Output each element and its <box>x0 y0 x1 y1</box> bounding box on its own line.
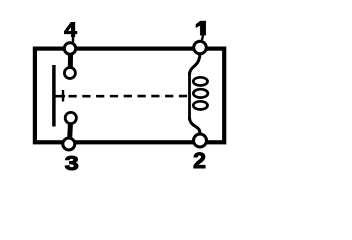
coil loop 3 <box>193 101 207 109</box>
coil loop 2 <box>193 89 208 97</box>
armature blade <box>52 65 56 127</box>
label pin 4 <box>64 19 77 42</box>
svg-text:3: 3 <box>65 152 79 175</box>
upper switch contact <box>64 68 75 79</box>
wire stub lower contact to terminal 3 <box>67 122 73 140</box>
leader stub under label 4 <box>72 36 74 42</box>
terminal 2 pin circle <box>194 134 207 147</box>
lower switch contact <box>65 112 76 123</box>
label pin 3 <box>65 152 79 175</box>
relay body box <box>35 49 224 143</box>
coil K left conductor <box>188 72 191 120</box>
terminal 3 pin circle <box>63 138 75 150</box>
terminal 1 pin circle <box>194 41 207 54</box>
dashed mechanical linkage line <box>69 95 191 98</box>
wire stub contact 4 to upper contact <box>68 52 73 68</box>
label pin 1 <box>196 21 206 35</box>
linkage tick on blade <box>56 90 66 102</box>
label pin 2 <box>193 148 206 173</box>
svg-text:2: 2 <box>193 148 206 173</box>
terminal 4 pin circle <box>64 43 75 54</box>
coil loop 1 <box>193 77 207 85</box>
leader stub under label 1 <box>202 35 203 40</box>
wire terminal 1 to coil top <box>190 53 201 75</box>
wire top edge between terminals <box>70 47 200 51</box>
wire coil bottom to terminal 2 <box>190 117 201 135</box>
svg-text:4: 4 <box>64 19 77 42</box>
